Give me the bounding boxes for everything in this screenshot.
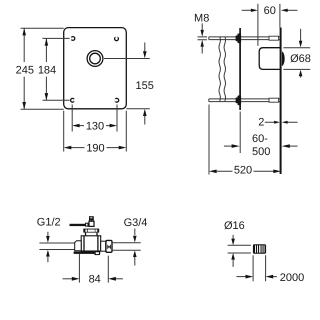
dim 184 line	[45, 38, 47, 100]
spout cap protrusion	[282, 51, 285, 66]
svg-text:155: 155	[136, 80, 154, 92]
dim 520 line	[216, 170, 274, 172]
dim O16 extension lines	[228, 245, 251, 253]
dim 60 line right	[287, 9, 297, 11]
mounting plate lower extension line	[239, 112, 241, 154]
dim 155 line	[144, 43, 146, 125]
svg-text:Ø68: Ø68	[290, 53, 311, 65]
rod sleeve top	[269, 36, 279, 40]
M8 arrow down	[201, 23, 203, 30]
svg-text:130: 130	[86, 121, 104, 133]
dim 245 line	[23, 28, 25, 109]
cover plate outline	[64, 28, 127, 109]
dim 2 line and arrows	[265, 121, 298, 123]
dim 130 line	[79, 125, 109, 127]
svg-text:60-: 60-	[252, 133, 268, 145]
svg-text:184: 184	[38, 65, 56, 77]
inlet pipe lines G1/2	[39, 243, 74, 250]
rod sleeve bottom	[269, 98, 279, 102]
wall break wavy line 1	[219, 37, 220, 102]
dim 130 arrows	[72, 124, 79, 128]
dim 184 extension lines	[43, 38, 70, 100]
dim 60-500 arrow left	[224, 145, 232, 147]
dim 2000 line right	[272, 276, 277, 278]
svg-text:520: 520	[234, 165, 252, 177]
dim O68 arrow bottom	[300, 76, 302, 78]
screw slot bottom-right (open left)	[115, 98, 119, 102]
screw slot top-left (open left)	[71, 37, 75, 41]
M8 arrow up	[201, 47, 203, 54]
rod nut top	[237, 33, 241, 43]
svg-text:2000: 2000	[280, 272, 304, 284]
M8 tick lines	[198, 37, 208, 40]
dim 245 extension lines	[21, 28, 64, 109]
dim 190 line	[71, 147, 119, 149]
dim 130 extension lines	[72, 105, 117, 132]
dim 84 line left	[63, 278, 73, 280]
svg-text:190: 190	[86, 142, 104, 154]
valve lever	[70, 224, 86, 226]
hose ribbed end	[253, 244, 266, 254]
dim 155 arrows	[143, 51, 147, 58]
dim 190 extension lines	[64, 111, 127, 152]
svg-text:245: 245	[16, 65, 34, 77]
dim 60-500 arrow right	[290, 145, 298, 147]
valve top screw	[89, 216, 94, 221]
valve stem	[89, 221, 94, 226]
valve mounting bracket arm	[74, 252, 95, 254]
dim 2000 line left	[236, 276, 246, 278]
valve neck	[86, 233, 98, 236]
threaded rod top	[209, 37, 280, 40]
svg-text:60: 60	[264, 5, 276, 17]
wall upper extension line	[279, 4, 281, 28]
valve bonnet	[83, 229, 99, 233]
G1/2 arrow up	[47, 256, 49, 262]
G1/2 arrow down	[47, 232, 49, 236]
threaded rod bottom	[209, 99, 280, 102]
dim 155 extension lines	[104, 59, 150, 109]
screw slot top-right (open top)	[115, 37, 119, 41]
wall break wavy line 2	[224, 37, 225, 102]
dim 520 arrows	[209, 170, 217, 174]
dim O16 arrow up	[232, 259, 234, 267]
dim 60 extension line	[257, 4, 259, 46]
valve outlet stub	[101, 241, 106, 251]
valve body	[81, 236, 101, 251]
screw slot bottom-left (open right)	[71, 98, 75, 102]
spout body side view	[259, 48, 281, 70]
valve bracket clamp	[94, 251, 100, 255]
dim 184 arrows	[45, 38, 49, 45]
svg-text:Ø16: Ø16	[224, 220, 245, 232]
svg-text:M8: M8	[194, 13, 209, 25]
svg-text:G3/4: G3/4	[124, 217, 148, 229]
G3/4 arrow down	[134, 229, 136, 236]
svg-text:84: 84	[89, 274, 101, 286]
svg-text:500: 500	[252, 146, 270, 158]
dim 2000 extension lines	[253, 255, 266, 281]
dim 190 arrows	[64, 146, 72, 150]
dim 245 arrows	[22, 28, 26, 35]
dim 84 line right	[115, 278, 123, 280]
valve inlet stub	[75, 241, 82, 251]
dim 520 extension line left	[208, 105, 210, 175]
dim 60 line left	[242, 9, 252, 11]
rod nut bottom	[237, 95, 241, 105]
dim O16 arrow down	[232, 235, 234, 239]
finished wall line	[280, 28, 282, 175]
svg-text:2: 2	[258, 116, 264, 128]
svg-text:G1/2: G1/2	[37, 217, 61, 229]
push-button inner circle	[90, 53, 101, 64]
outlet pipe lines G3/4	[112, 243, 141, 251]
dim O68 extension lines	[283, 48, 310, 70]
dim O68 arrow top	[300, 29, 302, 41]
mounting plate side view	[239, 28, 241, 110]
dim 84 extension lines	[79, 254, 108, 283]
valve union nut	[106, 240, 112, 252]
G3/4 arrow up	[134, 257, 136, 266]
push-button outer circle	[87, 51, 103, 67]
